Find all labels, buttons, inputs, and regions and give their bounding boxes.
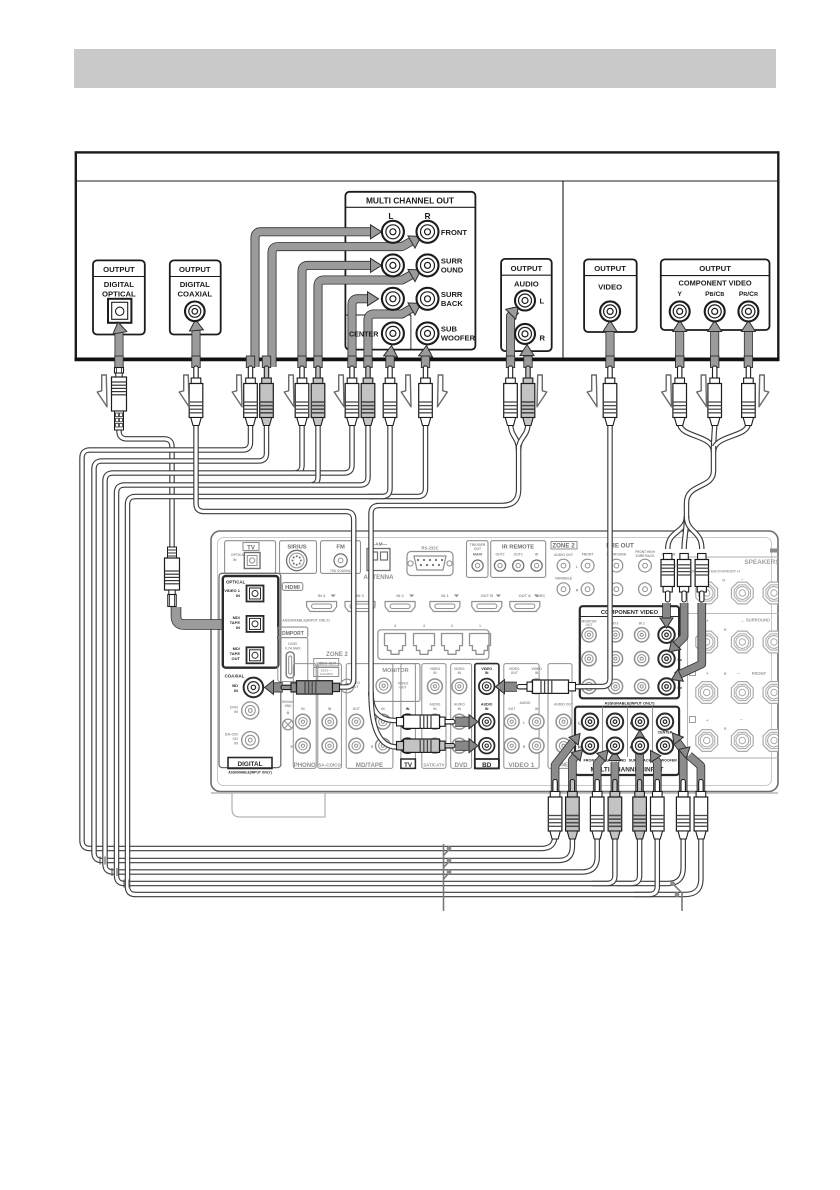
receiver input jack matrix xyxy=(282,664,574,769)
svg-text:COAXIAL: COAXIAL xyxy=(178,290,213,299)
svg-text:IN: IN xyxy=(301,707,305,711)
arrow into MULTI CHANNEL INPUT SURROUND L xyxy=(597,757,603,793)
hollow arrow at 186 xyxy=(179,375,189,407)
svg-text:IN: IN xyxy=(458,707,462,711)
svg-text:IN: IN xyxy=(234,710,238,714)
coaxial jack xyxy=(185,302,205,322)
svg-text:IN 3: IN 3 xyxy=(356,593,364,598)
svg-text:−: − xyxy=(740,717,743,722)
svg-text:VIDEO 1: VIDEO 1 xyxy=(508,762,534,769)
arrow into MULTI CHANNEL INPUT SURR BACK R xyxy=(654,758,657,793)
svg-text:ANTENNA: ANTENNA xyxy=(363,574,394,581)
hollow arrow at 341 xyxy=(334,375,344,407)
bottom plug SURROUND L xyxy=(590,780,604,840)
cable component split to Y plug xyxy=(668,516,687,549)
svg-text:OPTICAL: OPTICAL xyxy=(102,290,136,299)
svg-text:IN: IN xyxy=(236,625,240,630)
svg-text:CENTER: CENTER xyxy=(349,329,379,338)
svg-text:PR: PR xyxy=(678,686,682,690)
component jacks xyxy=(670,301,759,321)
svg-text:IN: IN xyxy=(535,671,539,675)
arrow into coaxial output xyxy=(192,327,201,367)
svg-text:R: R xyxy=(578,745,581,749)
receiver DIGITAL label xyxy=(228,758,272,775)
hollow arrow at 239 xyxy=(232,375,242,407)
svg-text:+: + xyxy=(706,718,709,723)
svg-text:OUT B: OUT B xyxy=(481,593,494,598)
page title bar xyxy=(74,49,776,88)
cable branch going down (center) xyxy=(444,844,452,911)
receiver TV optical section xyxy=(225,541,276,574)
cable bottom plug surr back R rise xyxy=(634,833,657,895)
svg-text:R: R xyxy=(724,628,727,632)
arrow into AUDIO R xyxy=(524,351,533,367)
svg-text:MONITOR: MONITOR xyxy=(382,668,408,674)
svg-text:IN 3: IN 3 xyxy=(612,621,618,625)
front R plug xyxy=(260,366,274,426)
receiver RS-232C D-sub xyxy=(407,546,453,576)
hollow arrow at 408 xyxy=(401,375,411,407)
audio R plug into BD audio xyxy=(397,739,456,752)
svg-text:DIGITAL: DIGITAL xyxy=(237,761,262,768)
receiver HDMI section xyxy=(282,583,545,623)
receiver SIRIUS section xyxy=(280,541,317,574)
hollow arrow at 594 xyxy=(587,375,597,407)
arrow audio R plug into BD AUDIO IN R xyxy=(455,741,469,751)
svg-text:OUTPUT: OUTPUT xyxy=(103,265,135,274)
receiver PRE OUT jacks xyxy=(576,543,676,596)
svg-text:VIDEO: VIDEO xyxy=(454,667,465,671)
arrow into SURROUND R xyxy=(318,274,413,367)
surr back R plug xyxy=(361,366,375,426)
player AUDIO OUTPUT box xyxy=(501,259,552,351)
arrow into MULTI CHANNEL INPUT FRONT L xyxy=(555,742,573,792)
bottom plug FRONT L xyxy=(548,780,562,840)
svg-text:SA-CD/: SA-CD/ xyxy=(225,733,239,737)
svg-text:AUDIO OUT: AUDIO OUT xyxy=(554,703,574,707)
receiver RJ45 network ports xyxy=(378,624,491,659)
svg-text:SIRIUS: SIRIUS xyxy=(287,545,306,551)
svg-text:DC5V: DC5V xyxy=(288,642,298,646)
svg-text:ASSIGNABLE(INPUT ONLY): ASSIGNABLE(INPUT ONLY) xyxy=(228,771,271,775)
svg-text:2: 2 xyxy=(451,624,453,628)
component PR plug top xyxy=(742,366,756,426)
audio R plug xyxy=(521,366,535,426)
cable audio split to R plug xyxy=(371,692,397,747)
cable audio split to L plug xyxy=(371,692,397,721)
cable surr back R drop onto surround R run xyxy=(312,423,368,485)
hollow arrow at 703.5 xyxy=(697,375,707,407)
svg-text:⏚: ⏚ xyxy=(286,709,291,716)
arrow into CENTER xyxy=(386,352,395,367)
svg-text:IN: IN xyxy=(535,553,539,557)
svg-text:OPTICAL: OPTICAL xyxy=(226,580,246,585)
receiver MONITOR section xyxy=(371,664,420,702)
arrow into FRONT R xyxy=(272,241,413,368)
svg-text:HDMI: HDMI xyxy=(285,585,300,591)
cable video: player video out to BD video plug xyxy=(570,423,610,687)
svg-text:PB: PB xyxy=(678,658,682,662)
svg-text:AUDIO OUT: AUDIO OUT xyxy=(554,553,574,557)
svg-text:IN 1: IN 1 xyxy=(441,593,449,598)
arrow into VIDEO jack xyxy=(606,328,615,367)
cable optical: player optical out to receiver plug xyxy=(119,424,172,549)
MULTI CHANNEL OUT jacks xyxy=(382,221,439,345)
hollow arrow at 540 xyxy=(537,375,547,407)
arrow video plug into BD VIDEO IN xyxy=(504,682,517,692)
arrow into SURR BACK R xyxy=(368,308,413,368)
svg-text:IN: IN xyxy=(535,707,539,711)
player VIDEO OUTPUT box xyxy=(584,259,637,332)
arrow audio L plug into BD AUDIO IN L xyxy=(455,717,469,727)
arrow coax plug into BD COAXIAL IN xyxy=(272,682,283,692)
svg-text:MD/TAPE: MD/TAPE xyxy=(356,762,383,769)
optical plug top (player side) xyxy=(112,368,127,431)
svg-text:DVD: DVD xyxy=(230,706,238,710)
player DIGITAL OPTICAL OUTPUT xyxy=(93,260,145,334)
svg-text:+: + xyxy=(706,618,709,623)
svg-text:SPEAKERS: SPEAKERS xyxy=(744,559,780,566)
subwoofer plug xyxy=(419,366,433,426)
AUDIO L R jacks xyxy=(515,291,535,344)
svg-text:−: − xyxy=(741,577,744,582)
arrow component Y plug into IN1 Y xyxy=(662,603,671,618)
svg-text:L: L xyxy=(540,297,545,306)
receiver ZONE 2 header xyxy=(551,542,577,596)
arrow component PR plug into IN1 PR xyxy=(676,603,702,676)
svg-text:GND: GND xyxy=(284,704,292,708)
svg-text:COAXIAL: COAXIAL xyxy=(225,674,245,679)
svg-text:IN: IN xyxy=(433,671,437,675)
svg-text:FRONT: FRONT xyxy=(752,671,767,676)
svg-text:1: 1 xyxy=(479,624,481,628)
VIDEO jack xyxy=(600,301,620,321)
svg-text:OUTPUT: OUTPUT xyxy=(179,265,211,274)
svg-text:IN: IN xyxy=(234,688,238,693)
svg-text:AUDIO: AUDIO xyxy=(520,701,531,705)
cable component split to PR plug xyxy=(687,516,702,549)
svg-text:FRONT: FRONT xyxy=(582,553,595,557)
svg-text:R: R xyxy=(540,334,546,343)
svg-text:OUT: OUT xyxy=(232,656,241,661)
receiver DMPORT xyxy=(278,627,308,682)
svg-text:IN: IN xyxy=(433,707,437,711)
svg-text:AUDIO: AUDIO xyxy=(454,703,465,707)
receiver ZONE2 VIDEO OUT xyxy=(314,652,361,693)
svg-text:IN: IN xyxy=(234,742,238,746)
component Y plug top xyxy=(673,366,687,426)
svg-text:SURR: SURR xyxy=(441,257,463,266)
video plug into BD video in xyxy=(517,680,576,693)
svg-text:VIDEO: VIDEO xyxy=(430,667,441,671)
svg-text:IN: IN xyxy=(328,707,332,711)
svg-text:TV: TV xyxy=(404,762,413,769)
component Y plug into receiver xyxy=(661,554,674,603)
cable front R loop xyxy=(94,423,572,861)
component PB plug into receiver xyxy=(677,554,690,603)
svg-text:MAIN: MAIN xyxy=(473,553,483,557)
video plug xyxy=(603,366,617,426)
surr back L plug xyxy=(345,366,359,426)
svg-text:IN: IN xyxy=(236,593,240,598)
svg-text:IR REMOTE: IR REMOTE xyxy=(502,545,534,551)
svg-text:L: L xyxy=(523,721,525,725)
svg-text:COMPONENT VIDEO: COMPONENT VIDEO xyxy=(679,278,752,287)
cable audio L branch into trunk xyxy=(511,423,519,450)
svg-text:R: R xyxy=(724,672,727,676)
arrow into SUBWOOFER xyxy=(421,352,430,367)
svg-text:WOOFER: WOOFER xyxy=(441,334,476,343)
arrow into MULTI CHANNEL INPUT SURR BACK L xyxy=(635,740,644,792)
arrow into AUDIO L xyxy=(511,310,517,367)
arrow into component Y xyxy=(675,328,684,367)
arrow into component PB xyxy=(710,328,719,367)
svg-text:ZONE 2: ZONE 2 xyxy=(552,543,575,550)
svg-text:OUTPUT: OUTPUT xyxy=(511,264,543,273)
receiver DIGITAL group outer box xyxy=(219,573,281,767)
svg-text:OUTPUT: OUTPUT xyxy=(699,264,731,273)
svg-text:VIDEO: VIDEO xyxy=(398,681,409,685)
svg-text:VIDEO: VIDEO xyxy=(531,667,542,671)
svg-text:VIDEO: VIDEO xyxy=(481,667,492,671)
svg-text:FM: FM xyxy=(336,545,345,551)
svg-text:OUT: OUT xyxy=(508,707,516,711)
arrow into FRONT L xyxy=(255,232,372,367)
cable branch going down (right) xyxy=(670,881,682,911)
svg-text:FRONT: FRONT xyxy=(441,228,468,237)
component PR plug into receiver xyxy=(695,554,708,603)
svg-text:Y: Y xyxy=(677,291,682,298)
svg-text:ASSIGNABLE(INPUT ONLY): ASSIGNABLE(INPUT ONLY) xyxy=(604,702,655,706)
svg-text:1mA MAX: 1mA MAX xyxy=(320,672,333,676)
coax digital plug (player side) xyxy=(189,366,203,426)
cable surround R loop to CENTER plug xyxy=(117,423,684,884)
hollow arrow at 291 xyxy=(284,375,294,407)
svg-text:OUT: OUT xyxy=(511,671,519,675)
svg-text:PB/CB: PB/CB xyxy=(705,291,724,298)
receiver COMPONENT VIDEO box xyxy=(580,606,682,705)
svg-text:PHONO: PHONO xyxy=(294,763,316,769)
svg-text:IN: IN xyxy=(381,707,385,711)
receiver DVD IN jack xyxy=(230,702,259,719)
svg-text:IN 2: IN 2 xyxy=(639,621,645,625)
receiver OPTICAL bold box xyxy=(223,576,278,668)
svg-text:OUND: OUND xyxy=(441,266,464,275)
svg-text:OUT: OUT xyxy=(353,707,361,711)
receiver IR REMOTE jacks xyxy=(491,541,546,578)
cable front L loop xyxy=(82,423,555,849)
svg-text:75Ω COAXIAL: 75Ω COAXIAL xyxy=(330,569,351,573)
cable audio R branch into trunk xyxy=(519,423,528,450)
surround L plug xyxy=(295,366,309,426)
svg-text:L: L xyxy=(388,211,393,221)
audio L plug into BD audio xyxy=(397,715,456,728)
receiver rear panel outline xyxy=(211,531,778,792)
svg-text:ZONE 2: ZONE 2 xyxy=(326,652,348,658)
svg-text:IN 2: IN 2 xyxy=(396,593,404,598)
svg-text:R: R xyxy=(724,727,727,731)
svg-text:OUT: OUT xyxy=(474,547,482,551)
receiver COAXIAL BD IN jack xyxy=(225,674,264,698)
svg-text:DIGITAL: DIGITAL xyxy=(180,280,210,289)
bottom plug CENTER xyxy=(676,780,690,840)
cable component trunk xyxy=(687,446,714,521)
receiver bottom edge xyxy=(211,792,778,794)
svg-text:CENTER: CENTER xyxy=(658,731,673,735)
svg-text:SAT/CATV: SAT/CATV xyxy=(423,763,444,768)
svg-text:AUDIO: AUDIO xyxy=(514,280,539,289)
svg-text:IN: IN xyxy=(406,707,410,711)
hollow arrow at 668.5 xyxy=(662,375,672,407)
cable component branch Y into trunk xyxy=(680,423,714,452)
svg-text:BD: BD xyxy=(482,762,492,769)
svg-text:SURROUND: SURROUND xyxy=(746,617,770,622)
bottom plug SURROUND R xyxy=(608,780,622,840)
audio L plug xyxy=(504,366,518,426)
svg-text:AUDIO: AUDIO xyxy=(429,703,440,707)
svg-text:IN 4: IN 4 xyxy=(318,593,326,598)
cable break tick marks left xyxy=(100,857,129,888)
receiver AM terminal xyxy=(363,542,394,581)
receiver SA-CD CD IN jack xyxy=(225,732,259,749)
receiver optical plug (pointing down) xyxy=(165,547,180,607)
bottom plug SURR BACK L xyxy=(633,780,647,840)
arrow into SURR BACK L xyxy=(352,299,369,367)
cable surr back L drop onto surround L run xyxy=(296,423,352,473)
svg-text:IN: IN xyxy=(485,671,489,675)
svg-text:VARIABLE: VARIABLE xyxy=(555,577,573,581)
cable center drop onto subwoofer run xyxy=(368,423,390,497)
arrow into optical output xyxy=(115,330,124,367)
player DIGITAL COAXIAL OUTPUT xyxy=(170,260,221,334)
svg-text:DVD: DVD xyxy=(455,762,469,769)
hollow arrow at 104 xyxy=(97,375,107,407)
cable audio trunk to receiver xyxy=(371,445,519,696)
cable component branch PR into trunk xyxy=(714,423,749,452)
svg-text:VIDEO: VIDEO xyxy=(598,283,622,292)
svg-text:R: R xyxy=(576,589,579,593)
arrow stubs through panel edge xyxy=(115,356,123,368)
svg-text:DMPORT: DMPORT xyxy=(282,631,304,637)
svg-text:SURR: SURR xyxy=(441,290,463,299)
receiver left foot xyxy=(232,793,325,817)
arrow into MULTI CHANNEL INPUT SUBWOOFER xyxy=(689,756,701,793)
svg-text:OUTPUT: OUTPUT xyxy=(594,264,626,273)
player MULTI CHANNEL OUT box xyxy=(345,192,475,350)
arrow into MULTI CHANNEL INPUT SURROUND R xyxy=(611,762,620,792)
arrow optical cable into receiver OPTICAL box xyxy=(176,607,222,625)
svg-text:R: R xyxy=(424,211,430,221)
bottom plug SUBWOOFER xyxy=(694,780,708,840)
arrow component PB plug into IN1 PB xyxy=(673,603,684,648)
svg-text:OUT1: OUT1 xyxy=(514,553,523,557)
svg-text:DIGITAL: DIGITAL xyxy=(104,280,134,289)
arrow into component PR xyxy=(744,328,753,367)
svg-text:SA-CD/CD: SA-CD/CD xyxy=(318,763,341,768)
cable bottom plug surr back L rise xyxy=(617,833,640,884)
svg-text:4: 4 xyxy=(394,624,396,628)
front L plug xyxy=(244,366,258,426)
receiver FM jack xyxy=(321,541,361,574)
svg-text:IN: IN xyxy=(485,707,489,711)
svg-text:MULTI CHANNEL OUT: MULTI CHANNEL OUT xyxy=(366,196,455,206)
player COMPONENT VIDEO OUTPUT box xyxy=(661,259,770,330)
svg-text:3: 3 xyxy=(423,624,425,628)
svg-text:R: R xyxy=(722,579,725,583)
arrow into MULTI CHANNEL INPUT FRONT R xyxy=(572,754,577,792)
svg-text:OUT: OUT xyxy=(586,623,593,627)
svg-text:RS-232C: RS-232C xyxy=(421,546,438,551)
svg-text:BACK: BACK xyxy=(441,299,463,308)
svg-text:SURR BACK: SURR BACK xyxy=(635,554,655,558)
svg-text:0.7A MAX: 0.7A MAX xyxy=(285,647,301,651)
arrow into MULTI CHANNEL INPUT CENTER xyxy=(678,743,684,793)
svg-text:+: + xyxy=(706,671,709,676)
receiver TRIGGER OUT jack xyxy=(467,541,489,578)
svg-text:SUB: SUB xyxy=(441,325,458,334)
svg-text:ARC: ARC xyxy=(537,594,545,598)
svg-text:IN: IN xyxy=(233,558,237,562)
svg-text:OUT A: OUT A xyxy=(519,593,531,598)
svg-text:OUT2: OUT2 xyxy=(495,553,504,557)
svg-text:−: − xyxy=(737,671,740,676)
MULTI CHANNEL INPUT jacks xyxy=(582,714,673,754)
svg-text:AUDIO: AUDIO xyxy=(481,703,493,707)
svg-text:VIDEO: VIDEO xyxy=(509,667,520,671)
bottom plug FRONT R xyxy=(566,780,580,840)
receiver MULTI CHANNEL INPUT box xyxy=(575,707,679,775)
svg-text:PR/CR: PR/CR xyxy=(739,291,758,298)
svg-text:CD: CD xyxy=(233,737,239,741)
svg-text:IN: IN xyxy=(458,671,462,675)
surround R plug xyxy=(311,366,325,426)
hollow arrow at 762 xyxy=(759,375,769,407)
cable coax: player coax out to BD coax plug xyxy=(196,423,354,687)
cable component split to PB plug xyxy=(684,516,686,549)
cable component branch PB into trunk xyxy=(714,423,715,452)
cable bottom plug surround R rise xyxy=(592,833,615,884)
bottom plug SURR BACK R xyxy=(651,780,665,840)
center plug xyxy=(383,366,397,426)
hollow arrow at 440.5 xyxy=(438,375,448,407)
svg-text:−: − xyxy=(741,618,744,623)
cable subwoofer loop to SUBWOOFER plug xyxy=(128,423,701,895)
component PB plug top xyxy=(708,366,722,426)
cable surround L loop xyxy=(105,423,597,872)
coax plug into BD coaxial (dark, pointing left) xyxy=(281,681,340,694)
player rear panel outline xyxy=(75,152,780,361)
svg-text:ASSIGNABLE(INPUT ONLY): ASSIGNABLE(INPUT ONLY) xyxy=(282,619,330,623)
svg-text:TV: TV xyxy=(247,545,255,551)
arrow into SURROUND L xyxy=(302,265,372,367)
